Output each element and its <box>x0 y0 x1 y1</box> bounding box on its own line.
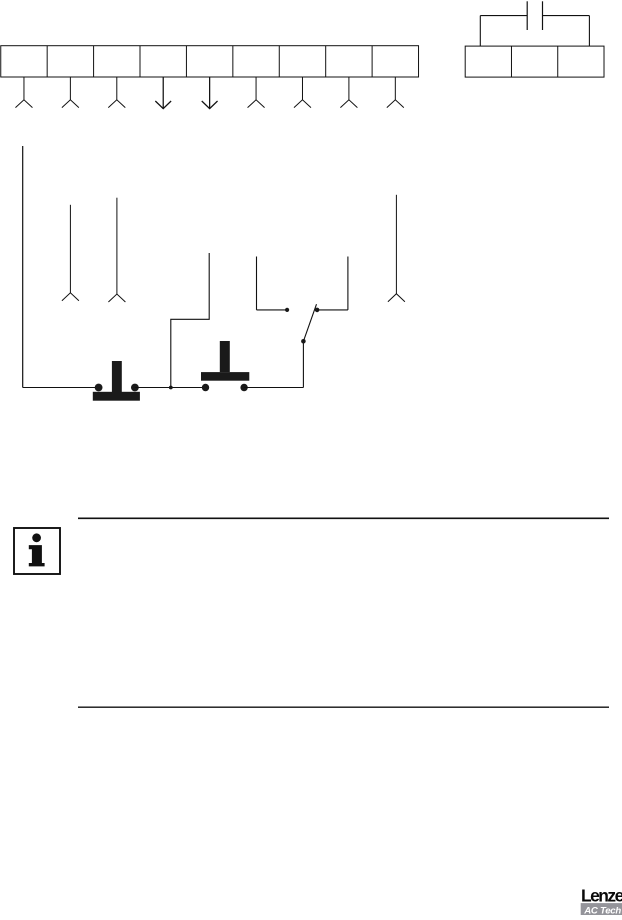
svg-text:AC Tech: AC Tech <box>583 905 621 915</box>
svg-text:Lenze: Lenze <box>581 885 622 905</box>
